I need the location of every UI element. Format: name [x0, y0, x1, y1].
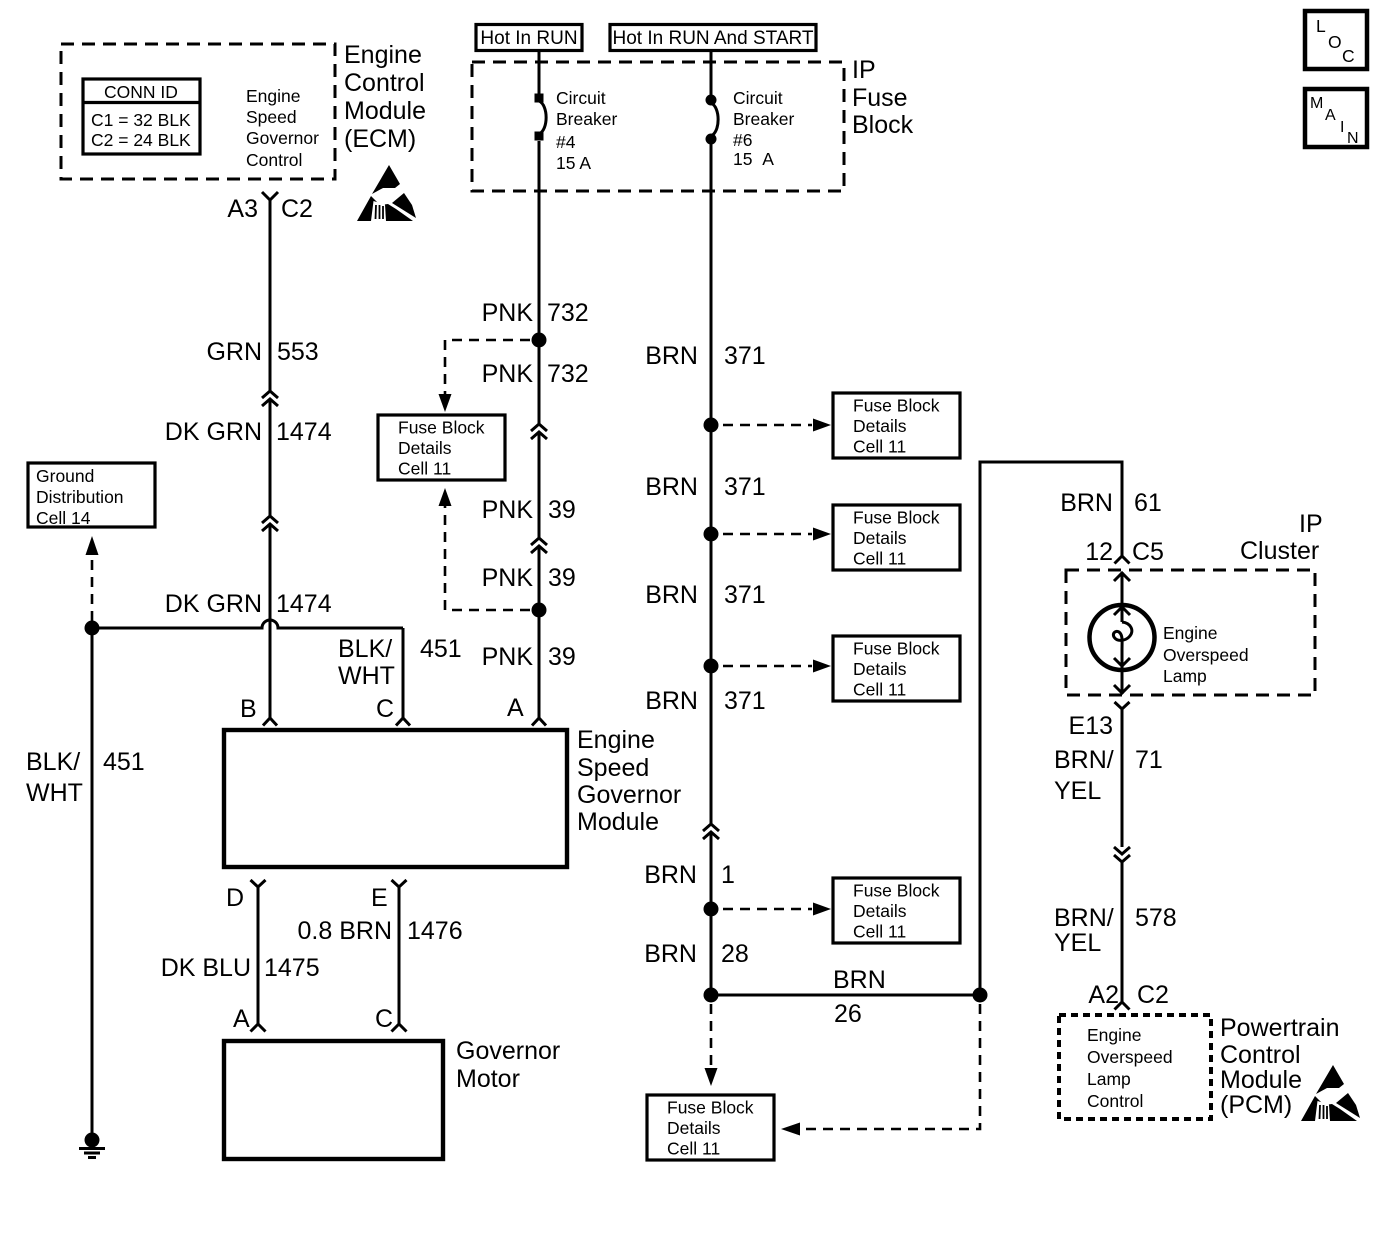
svg-text:BRN/: BRN/ [1054, 746, 1114, 774]
svg-text:PNK: PNK [482, 360, 534, 388]
MAIN box [1305, 89, 1367, 147]
module pin B [240, 695, 277, 726]
svg-text:L: L [1316, 16, 1326, 36]
IP Fuse Block enclosure (dashed) [472, 62, 844, 191]
svg-text:15 A: 15 A [733, 149, 774, 169]
label: Circuit Breaker #6 15 A [733, 88, 794, 169]
PCM pin A2 / C2 [1088, 981, 1169, 1010]
svg-text:Details: Details [853, 416, 907, 436]
inline splice chevrons on BRN/YEL wire (down) [1114, 847, 1130, 862]
label: PNK 39 (second) [482, 564, 576, 592]
svg-text:C5: C5 [1132, 538, 1164, 566]
label: Engine Overspeed Lamp [1163, 623, 1249, 686]
junction node on BRN 371 (3rd) [704, 659, 719, 674]
label: Engine Overspeed Lamp Control [1087, 1025, 1173, 1111]
svg-text:578: 578 [1135, 904, 1177, 932]
dashed arrow from PNK splice to Fuse Block Details (down) [439, 340, 531, 412]
reference box: Ground Distribution Cell 14 [28, 463, 155, 528]
svg-text:Fuse: Fuse [852, 84, 908, 112]
svg-text:Fuse Block: Fuse Block [853, 508, 940, 528]
junction node BRN 28 / BRN 26 [704, 988, 719, 1003]
svg-text:Cell 14: Cell 14 [36, 508, 91, 528]
dashed arrow from BRN 28 splice down to Fuse Block Details (bottom) [705, 1004, 718, 1086]
svg-text:Fuse Block: Fuse Block [853, 639, 940, 659]
svg-text:Cell 11: Cell 11 [853, 922, 906, 942]
svg-text:PNK: PNK [482, 496, 534, 524]
svg-text:BRN: BRN [645, 473, 698, 501]
svg-text:Control: Control [1087, 1091, 1143, 1111]
label: Circuit Breaker #4 15 A [556, 88, 617, 173]
svg-text:Speed: Speed [246, 107, 297, 127]
dashed arrow to Fuse Block Details (1st) [723, 419, 831, 432]
wire: BLK/WHT 451 horizontal run with hop over GRN wire [92, 620, 403, 628]
svg-text:N: N [1347, 130, 1359, 147]
svg-text:BRN/: BRN/ [1054, 904, 1114, 932]
svg-text:BLK/: BLK/ [26, 748, 80, 776]
svg-text:Hot In RUN And START: Hot In RUN And START [613, 28, 814, 49]
svg-text:BRN: BRN [1060, 489, 1113, 517]
label: BLK/ WHT 451 (left side) [26, 748, 145, 807]
dashed arrow to Fuse Block Details (3rd) [723, 660, 831, 673]
svg-text:Circuit: Circuit [556, 88, 606, 108]
svg-text:DK GRN: DK GRN [165, 590, 262, 618]
svg-text:Distribution: Distribution [36, 487, 124, 507]
svg-text:Module: Module [577, 808, 659, 836]
svg-text:DK BLU: DK BLU [161, 954, 251, 982]
cluster pin E13 [1069, 702, 1130, 740]
svg-text:732: 732 [547, 360, 589, 388]
svg-text:371: 371 [724, 342, 766, 370]
label: PNK 732 (upper) [482, 299, 589, 327]
label: BRN 371 (1st) [645, 342, 766, 370]
svg-text:C2: C2 [1137, 981, 1169, 1009]
svg-text:Fuse Block: Fuse Block [398, 418, 485, 438]
svg-text:IP: IP [1299, 510, 1323, 538]
junction node BRN 26 right end [973, 988, 988, 1003]
inline splice chevrons on BRN wire [703, 824, 719, 839]
inline splice chevrons on GRN wire [262, 391, 278, 406]
svg-text:D: D [226, 884, 244, 912]
connect tag: Hot In RUN [476, 25, 582, 51]
label: BRN 26 [833, 966, 886, 1028]
svg-text:371: 371 [724, 473, 766, 501]
reference box: Fuse Block Details Cell 11 (4th right) [833, 878, 960, 943]
module pin E [371, 880, 407, 912]
label: Engine Speed Governor Control [246, 86, 319, 170]
svg-text:CONN ID: CONN ID [104, 82, 178, 102]
svg-text:Module: Module [1220, 1066, 1302, 1094]
junction node on BRN 1 [704, 902, 719, 917]
svg-text:Fuse Block: Fuse Block [667, 1098, 754, 1118]
svg-text:39: 39 [548, 564, 576, 592]
wire: GRN 553 / DK GRN 1474 (ECM C2-A3 to module pin B) [269, 200, 272, 718]
label: DK GRN 1474 (upper) [165, 418, 332, 446]
svg-text:26: 26 [834, 1000, 862, 1028]
svg-text:Governor: Governor [577, 781, 681, 809]
reference box: Fuse Block Details Cell 11 (1st right) [833, 393, 960, 458]
svg-text:WHT: WHT [338, 662, 395, 690]
svg-text:39: 39 [548, 643, 576, 671]
svg-text:I: I [1340, 119, 1344, 136]
junction node (BLK/WHT 451 splice) [85, 621, 100, 636]
svg-text:1475: 1475 [264, 954, 320, 982]
svg-text:Overspeed: Overspeed [1163, 645, 1249, 665]
ground symbol G103 [79, 1133, 105, 1158]
svg-text:Control: Control [246, 150, 302, 170]
wire: Hot In RUN And START tag to CB#6 [710, 50, 713, 97]
dashed arrow to Fuse Block Details (4th) [723, 903, 831, 916]
svg-text:Powertrain: Powertrain [1220, 1014, 1340, 1042]
svg-text:1474: 1474 [276, 418, 332, 446]
svg-text:Governor: Governor [246, 128, 319, 148]
motor pin A [233, 1005, 266, 1033]
svg-text:451: 451 [103, 748, 145, 776]
label: BRN/ YEL 578 [1054, 904, 1177, 957]
svg-text:A: A [233, 1005, 250, 1033]
svg-text:0.8 BRN: 0.8 BRN [298, 917, 392, 945]
svg-text:28: 28 [721, 940, 749, 968]
svg-text:YEL: YEL [1054, 929, 1101, 957]
svg-text:Cell 11: Cell 11 [667, 1139, 720, 1159]
svg-text:BRN: BRN [645, 342, 698, 370]
svg-text:PNK: PNK [482, 643, 534, 671]
svg-text:Overspeed: Overspeed [1087, 1047, 1173, 1067]
ESD symbol (ECM) [357, 165, 416, 221]
CONN ID table [83, 79, 200, 154]
svg-text:732: 732 [547, 299, 589, 327]
svg-text:DK GRN: DK GRN [165, 418, 262, 446]
svg-text:(PCM): (PCM) [1220, 1091, 1292, 1119]
label: 0.8 BRN 1476 [298, 917, 463, 945]
svg-text:Engine: Engine [1163, 623, 1218, 643]
svg-text:Fuse Block: Fuse Block [853, 396, 940, 416]
svg-text:BRN: BRN [644, 861, 697, 889]
dashed arrow to Ground Distribution box [86, 536, 99, 621]
lamp return wire (inside cluster) [1114, 650, 1130, 694]
svg-text:553: 553 [277, 338, 319, 366]
svg-text:1474: 1474 [276, 590, 332, 618]
label: GRN 553 [206, 338, 318, 366]
lamp: Engine Overspeed Lamp [1090, 605, 1155, 670]
circuit breaker CB#4 [535, 94, 547, 141]
svg-text:Engine: Engine [1087, 1025, 1142, 1045]
inline splice chevrons on DK GRN wire [262, 516, 278, 531]
junction node on PNK 39 [532, 603, 547, 618]
svg-text:Details: Details [853, 659, 907, 679]
svg-text:A: A [507, 694, 524, 722]
dashed arrow from right splice to Fuse Block Details (bottom) [781, 1004, 980, 1136]
svg-text:C1 = 32 BLK: C1 = 32 BLK [91, 110, 191, 130]
cluster pin 12 / C5 [1085, 538, 1164, 566]
svg-text:C2: C2 [281, 195, 313, 223]
circuit breaker CB#6 [706, 95, 719, 145]
reference box: Fuse Block Details Cell 11 (bottom) [647, 1095, 774, 1160]
label: BRN 61 [1060, 489, 1162, 517]
module pin C [376, 695, 410, 726]
label: BRN/ YEL 71 [1054, 746, 1163, 805]
svg-text:B: B [240, 695, 257, 723]
svg-text:1476: 1476 [407, 917, 463, 945]
svg-text:PNK: PNK [482, 299, 534, 327]
svg-text:15 A: 15 A [556, 153, 591, 173]
svg-text:Breaker: Breaker [733, 109, 794, 129]
label: IP Cluster [1240, 510, 1323, 565]
svg-text:Cell 11: Cell 11 [853, 549, 906, 569]
label: BLK/ WHT 451 (at module pin C) [338, 635, 462, 690]
svg-text:Speed: Speed [577, 754, 649, 782]
motor pin C [375, 1005, 407, 1033]
module pin A [507, 694, 546, 726]
svg-text:BRN: BRN [645, 581, 698, 609]
svg-text:12: 12 [1085, 538, 1113, 566]
svg-text:Engine: Engine [344, 41, 422, 69]
label: PNK 39 (first) [482, 496, 576, 524]
svg-text:BRN: BRN [833, 966, 886, 994]
svg-text:Governor: Governor [456, 1037, 560, 1065]
svg-text:E: E [371, 884, 388, 912]
dashed arrow from PNK 39 splice to Fuse Block Details (up) [439, 488, 531, 610]
label: IP Fuse Block [852, 56, 914, 139]
wire: BRN 371 (CB#6 down) [710, 143, 713, 995]
label: BRN 371 (2nd) [645, 473, 766, 501]
connect tag: Hot In RUN And START [610, 25, 816, 51]
label: BRN 28 [644, 940, 749, 968]
wire: Hot In RUN tag to CB#4 [538, 50, 541, 94]
svg-text:71: 71 [1135, 746, 1163, 774]
inline splice chevrons on PNK wire (upper) [531, 424, 547, 439]
label: BRN 371 (4th) [645, 687, 766, 715]
svg-text:E13: E13 [1069, 712, 1113, 740]
inline splice chevrons on PNK wire (lower) [531, 538, 547, 553]
wire: DK BLU 1475 (pin D to motor A) [257, 887, 260, 1024]
wire: BLK/WHT 451 drop to module pin C [402, 628, 405, 718]
LOC box [1305, 11, 1367, 69]
svg-text:Details: Details [667, 1118, 721, 1138]
svg-text:Circuit: Circuit [733, 88, 783, 108]
svg-text:A3: A3 [227, 195, 258, 223]
svg-text:Details: Details [853, 901, 907, 921]
svg-text:Lamp: Lamp [1087, 1069, 1131, 1089]
svg-text:BLK/: BLK/ [338, 635, 392, 663]
svg-text:Cell 11: Cell 11 [853, 437, 906, 457]
label: PNK 732 (lower) [482, 360, 589, 388]
svg-text:Breaker: Breaker [556, 109, 617, 129]
svg-text:C: C [1342, 46, 1355, 66]
ECM enclosure (dashed) [61, 44, 335, 179]
lamp feed wire (inside cluster) [1114, 572, 1130, 622]
svg-text:Control: Control [344, 69, 425, 97]
wire: 0.8 BRN 1476 (pin E to motor C) [398, 887, 401, 1024]
svg-text:1: 1 [721, 861, 735, 889]
svg-text:IP: IP [852, 56, 876, 84]
reference box: Fuse Block Details Cell 11 (3rd right) [833, 636, 960, 701]
svg-text:Engine: Engine [246, 86, 301, 106]
label: Powertrain Control Module (PCM) [1220, 1014, 1340, 1119]
wire: BRN 61 (splice up and over to IP cluster) [980, 462, 1122, 995]
svg-text:BRN: BRN [644, 940, 697, 968]
svg-text:Hot In RUN: Hot In RUN [480, 28, 577, 49]
svg-text:BRN: BRN [645, 687, 698, 715]
junction node on BRN 371 (1st) [704, 418, 719, 433]
label: BRN 371 (3rd) [645, 581, 766, 609]
svg-text:YEL: YEL [1054, 777, 1101, 805]
svg-text:Fuse Block: Fuse Block [853, 881, 940, 901]
svg-text:M: M [1310, 95, 1323, 112]
svg-text:#6: #6 [733, 130, 752, 150]
wire: BRN/YEL 71 [1121, 709, 1124, 847]
svg-text:Cluster: Cluster [1240, 537, 1319, 565]
IP Cluster enclosure (dashed) [1066, 570, 1315, 695]
label: Engine Speed Governor Module [577, 726, 681, 836]
connector pins A3 / C2 at ECM [227, 192, 313, 223]
svg-text:371: 371 [724, 687, 766, 715]
svg-text:A: A [1325, 107, 1336, 124]
junction node on BRN 371 (2nd) [704, 527, 719, 542]
svg-text:C: C [376, 695, 394, 723]
label: Governor Motor [456, 1037, 560, 1093]
label: DK GRN 1474 (lower) [165, 590, 332, 618]
svg-text:Engine: Engine [577, 726, 655, 754]
svg-text:Details: Details [853, 528, 907, 548]
svg-text:61: 61 [1134, 489, 1162, 517]
svg-text:(ECM): (ECM) [344, 125, 416, 153]
wire: BRN 26 horizontal [711, 994, 980, 997]
wire: BRN/YEL 578 [1121, 862, 1124, 1002]
svg-text:C2 = 24 BLK: C2 = 24 BLK [91, 130, 191, 150]
wire: PNK 732 / PNK 39 (CB#4 to module pin A) [538, 141, 541, 718]
reference box: Fuse Block Details Cell 11 (left) [378, 415, 505, 480]
svg-text:Module: Module [344, 97, 426, 125]
svg-text:Block: Block [852, 111, 914, 139]
ESD symbol (PCM) [1301, 1065, 1360, 1121]
svg-text:39: 39 [548, 496, 576, 524]
svg-text:#4: #4 [556, 132, 576, 152]
svg-text:Ground: Ground [36, 466, 94, 486]
svg-text:Lamp: Lamp [1163, 666, 1207, 686]
label: BRN 1 [644, 861, 735, 889]
dashed arrow to Fuse Block Details (2nd) [723, 528, 831, 541]
Governor Motor box [224, 1041, 443, 1159]
svg-text:GRN: GRN [206, 338, 262, 366]
svg-text:WHT: WHT [26, 779, 83, 807]
reference box: Fuse Block Details Cell 11 (2nd right) [833, 505, 960, 570]
Engine Speed Governor Module box [224, 730, 567, 867]
svg-text:451: 451 [420, 635, 462, 663]
svg-text:Cell 11: Cell 11 [398, 459, 451, 479]
svg-text:371: 371 [724, 581, 766, 609]
svg-text:A2: A2 [1088, 981, 1119, 1009]
label: PNK 39 (third) [482, 643, 576, 671]
junction node S206 on PNK 732 [532, 333, 547, 348]
wire: BLK/WHT 451 down to ground [91, 628, 94, 1133]
label: DK BLU 1475 [161, 954, 320, 982]
svg-text:Cell 11: Cell 11 [853, 680, 906, 700]
svg-text:PNK: PNK [482, 564, 534, 592]
svg-text:Details: Details [398, 438, 452, 458]
svg-text:C: C [375, 1005, 393, 1033]
label: Engine Control Module (ECM) [344, 41, 426, 153]
svg-text:Motor: Motor [456, 1065, 520, 1093]
svg-text:Control: Control [1220, 1041, 1301, 1069]
svg-text:O: O [1328, 32, 1342, 52]
PCM enclosure (dotted) [1059, 1015, 1211, 1119]
module pin D [226, 880, 266, 912]
